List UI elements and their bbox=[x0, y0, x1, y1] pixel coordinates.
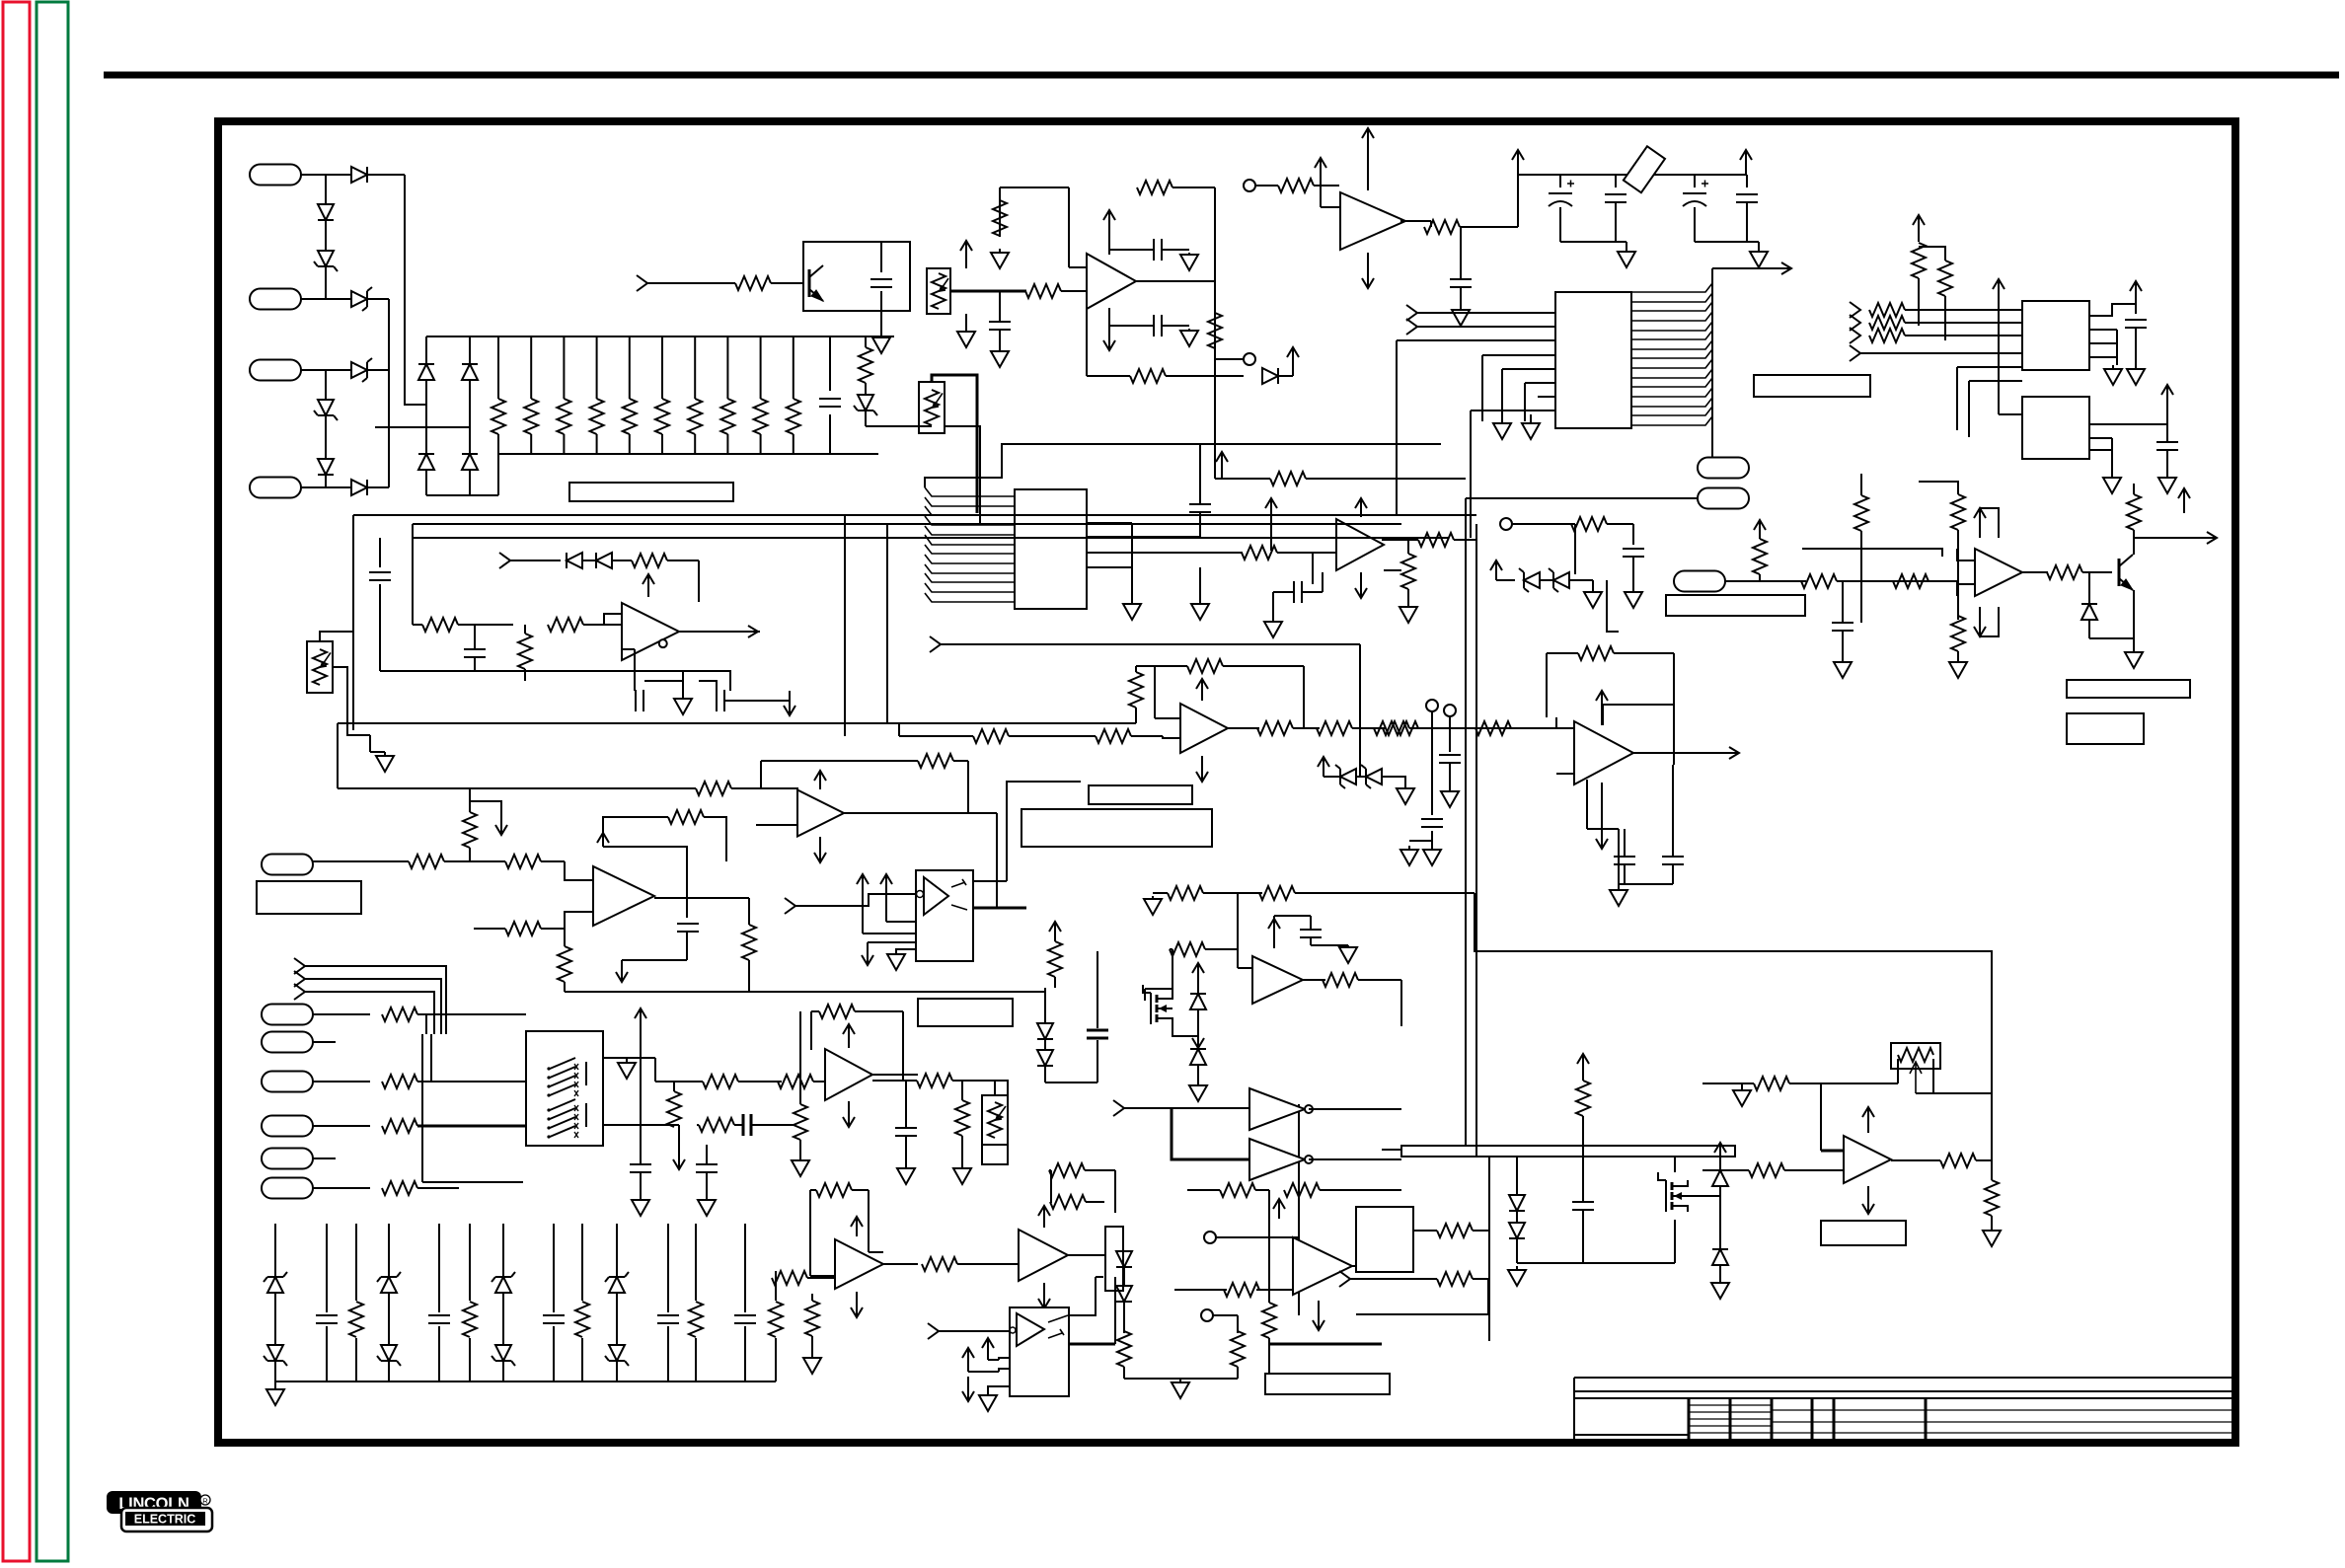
terminal node bbox=[1244, 353, 1255, 365]
power arrow bbox=[602, 833, 604, 847]
wire bbox=[744, 1224, 746, 1312]
wire bbox=[748, 898, 750, 925]
signal arrow bbox=[2134, 537, 2217, 539]
wire bbox=[999, 291, 1001, 322]
ground bbox=[965, 326, 967, 332]
wire bbox=[1574, 524, 1576, 574]
wire bbox=[425, 470, 427, 495]
wire bbox=[1382, 1149, 1401, 1151]
wire bbox=[313, 1081, 370, 1083]
ground bbox=[987, 1393, 989, 1395]
wire bbox=[748, 960, 750, 992]
wire bbox=[1007, 782, 1081, 881]
wire bbox=[694, 434, 696, 454]
ground bbox=[2166, 474, 2168, 478]
wire bbox=[1465, 498, 1467, 1146]
wire bbox=[563, 434, 565, 454]
wire bbox=[417, 1081, 526, 1083]
resistor R84 bbox=[794, 1104, 807, 1140]
power arrow bbox=[1323, 757, 1324, 777]
wire bbox=[849, 514, 1476, 516]
wire bbox=[661, 336, 663, 399]
wire bbox=[1045, 1082, 1097, 1083]
wire bbox=[565, 912, 593, 929]
power arrow bbox=[1201, 679, 1203, 701]
wire bbox=[872, 1080, 917, 1082]
wire bbox=[1061, 290, 1087, 292]
diode D11 bbox=[418, 454, 434, 470]
zener diode D4 bbox=[381, 1345, 397, 1361]
connector J3 bbox=[250, 360, 301, 381]
wire bbox=[2089, 342, 2117, 344]
resistor R50 bbox=[1571, 517, 1607, 531]
diode D19 bbox=[1116, 1251, 1132, 1267]
wire bbox=[726, 434, 728, 454]
wire bbox=[1050, 1170, 1052, 1202]
resistor R98 bbox=[1437, 1224, 1473, 1237]
wire bbox=[326, 369, 351, 371]
wire bbox=[1957, 530, 1959, 620]
wire bbox=[1417, 326, 1555, 328]
power arrow bbox=[2166, 385, 2168, 412]
ground bbox=[880, 332, 882, 337]
resistor R54 bbox=[1893, 574, 1929, 588]
op-amp U12 bbox=[1574, 721, 1633, 784]
page frame red stripe bbox=[3, 2, 30, 1561]
wire bbox=[880, 291, 882, 311]
wire bbox=[1352, 727, 1386, 729]
input chevron bbox=[1850, 302, 1860, 318]
wire bbox=[1310, 916, 1312, 930]
capacitor C2 bbox=[428, 1315, 450, 1323]
wire bbox=[1673, 705, 1675, 765]
resistor R94 bbox=[1262, 1303, 1276, 1338]
connector J2 bbox=[250, 289, 301, 310]
wire bbox=[1860, 474, 1862, 495]
power arrow bbox=[848, 1024, 850, 1048]
wire bbox=[1358, 979, 1401, 981]
ground bbox=[1431, 846, 1433, 850]
wire bbox=[414, 537, 837, 539]
wire bbox=[2166, 473, 2168, 475]
resistor R57 bbox=[1951, 494, 1965, 530]
wire bbox=[1956, 367, 1958, 430]
wire bbox=[902, 1011, 904, 1081]
wire bbox=[1746, 175, 1748, 187]
resistor R26 bbox=[1869, 316, 1905, 330]
resistor R100 bbox=[1898, 1048, 1933, 1062]
ground bbox=[1199, 600, 1201, 604]
diode D29 bbox=[1190, 1049, 1206, 1065]
wire bbox=[2135, 328, 2137, 365]
input chevron bbox=[1850, 345, 1860, 361]
wire bbox=[1322, 572, 1324, 592]
wire bbox=[1582, 1116, 1584, 1150]
wire bbox=[865, 336, 867, 347]
wire bbox=[1821, 1150, 1844, 1153]
wire bbox=[1587, 828, 1619, 830]
wire bbox=[1919, 247, 1945, 261]
wire bbox=[367, 298, 389, 300]
wire bbox=[1991, 1216, 1993, 1227]
wire bbox=[734, 1124, 742, 1126]
wire bbox=[1530, 414, 1532, 421]
wire bbox=[863, 933, 916, 934]
wire bbox=[1524, 383, 1526, 421]
wire bbox=[413, 523, 849, 525]
wire bbox=[866, 425, 932, 427]
power arrow bbox=[1745, 150, 1747, 175]
wire bbox=[1136, 665, 1187, 667]
wire bbox=[950, 290, 1026, 293]
wire bbox=[941, 643, 1115, 645]
wire bbox=[379, 584, 381, 671]
IC U19 bbox=[1010, 1307, 1069, 1396]
wire bbox=[541, 860, 565, 862]
wire bbox=[2116, 330, 2118, 365]
wire bbox=[953, 760, 968, 762]
wire bbox=[313, 1157, 336, 1159]
ground bbox=[999, 249, 1001, 253]
wire bbox=[673, 1082, 675, 1091]
resistor R86 bbox=[772, 1271, 807, 1285]
analog switch bbox=[547, 1067, 550, 1070]
capacitor C31 bbox=[677, 924, 699, 932]
wire bbox=[1603, 704, 1674, 706]
wire bbox=[274, 1361, 276, 1381]
input chevron bbox=[1406, 319, 1417, 335]
wire bbox=[898, 723, 900, 736]
resistor R10 bbox=[787, 399, 800, 434]
power arrow bbox=[819, 771, 821, 789]
resistor R71 bbox=[667, 1091, 681, 1127]
wire bbox=[616, 1361, 618, 1381]
capacitor C26 bbox=[696, 1164, 718, 1172]
wire bbox=[1968, 381, 1970, 437]
power arrow down bbox=[678, 1145, 680, 1169]
wire bbox=[682, 671, 684, 691]
wire bbox=[497, 434, 499, 454]
IC U22 bbox=[1356, 1207, 1413, 1272]
wire bbox=[1481, 355, 1483, 421]
wire bbox=[421, 1034, 423, 1182]
resistor R93 bbox=[1231, 1331, 1245, 1367]
op-amp U10 bbox=[1180, 704, 1228, 753]
wire bbox=[1431, 711, 1433, 728]
ground bbox=[706, 1196, 708, 1200]
wire bbox=[2111, 438, 2113, 474]
wire bbox=[565, 991, 1045, 993]
ground bbox=[1719, 1279, 1721, 1283]
power arrow bbox=[1495, 560, 1497, 580]
wire bbox=[2133, 530, 2135, 555]
wire bbox=[880, 311, 882, 332]
wire bbox=[1311, 944, 1348, 946]
power arrow bbox=[1759, 520, 1761, 539]
wire bbox=[1352, 1265, 1401, 1267]
wire bbox=[305, 979, 441, 1034]
capacitor C8 bbox=[1605, 194, 1626, 202]
wire bbox=[622, 648, 635, 650]
resistor R48 bbox=[973, 729, 1009, 743]
wire bbox=[1135, 666, 1137, 672]
wire bbox=[1237, 893, 1239, 968]
wire bbox=[1905, 309, 2022, 311]
wire bbox=[886, 524, 888, 723]
wire bbox=[667, 1326, 669, 1381]
wire bbox=[679, 631, 760, 633]
wire bbox=[905, 1081, 907, 1128]
power arrow bbox=[1270, 498, 1272, 551]
wire bbox=[811, 1294, 813, 1301]
wire bbox=[622, 959, 687, 961]
wire bbox=[612, 560, 632, 561]
wire bbox=[629, 336, 631, 399]
wire bbox=[1460, 287, 1462, 306]
diode D15 bbox=[567, 553, 582, 568]
zener diode D7 bbox=[351, 362, 367, 378]
power arrow bbox=[862, 874, 864, 933]
resistor R22 bbox=[1424, 220, 1460, 234]
ground bbox=[1197, 1082, 1199, 1085]
IC U5 bbox=[2022, 301, 2089, 370]
wire bbox=[1475, 893, 1992, 1093]
wire bbox=[1719, 1186, 1721, 1196]
wire bbox=[1602, 705, 1604, 725]
wire bbox=[2089, 437, 2112, 439]
wire bbox=[865, 411, 867, 426]
wire bbox=[1842, 581, 1844, 623]
wire bbox=[1114, 1170, 1116, 1213]
wire bbox=[965, 260, 967, 268]
capacitor C1 bbox=[819, 399, 841, 407]
power arrow down bbox=[1601, 783, 1603, 849]
schematic border bbox=[218, 121, 2235, 1443]
resistor R61 bbox=[1374, 721, 1409, 735]
wire bbox=[1418, 727, 1520, 729]
wire bbox=[616, 1224, 618, 1277]
wire bbox=[994, 1081, 996, 1095]
diode D27 bbox=[1037, 1050, 1053, 1066]
wire bbox=[868, 941, 916, 943]
wire bbox=[1131, 582, 1133, 600]
resistor R30 bbox=[518, 634, 532, 669]
wire bbox=[1860, 352, 2022, 354]
wire bbox=[1214, 187, 1216, 281]
wire bbox=[634, 649, 636, 691]
wire bbox=[1957, 651, 1959, 659]
ground bbox=[2111, 474, 2113, 478]
label box LB9 bbox=[2067, 713, 2144, 744]
wire bbox=[2166, 450, 2168, 474]
capacitor C27 bbox=[895, 1128, 917, 1136]
wire bbox=[426, 494, 498, 496]
resistor R29 bbox=[422, 618, 458, 632]
resistor R19 bbox=[1208, 313, 1222, 348]
ground bbox=[895, 951, 897, 954]
wire bbox=[905, 1136, 907, 1164]
zener diode D2 bbox=[318, 251, 334, 266]
resistor R55 bbox=[1753, 539, 1767, 574]
capacitor C5 bbox=[734, 1315, 756, 1323]
ground bbox=[811, 1354, 813, 1358]
capacitor C3 bbox=[543, 1315, 565, 1323]
op-amp U28 bbox=[797, 790, 844, 837]
wire bbox=[2133, 484, 2135, 494]
wire bbox=[337, 723, 339, 788]
wire bbox=[756, 824, 797, 826]
wire bbox=[355, 1338, 357, 1381]
power arrow down bbox=[819, 837, 821, 862]
wire bbox=[1559, 175, 1561, 187]
wire bbox=[1430, 221, 1432, 227]
wire bbox=[1615, 203, 1617, 242]
wire bbox=[530, 434, 532, 454]
resistor R2 bbox=[524, 399, 538, 434]
wire bbox=[1929, 581, 1975, 584]
wire bbox=[1569, 579, 1593, 581]
wire bbox=[731, 787, 761, 789]
wire bbox=[1516, 1238, 1518, 1263]
wire bbox=[982, 1081, 1008, 1095]
wire bbox=[326, 174, 351, 176]
resistor R75 bbox=[349, 1302, 363, 1337]
op-amp U16 bbox=[1019, 1230, 1068, 1281]
analog switch bbox=[547, 1093, 550, 1096]
wire fan right of U4 bbox=[1631, 283, 1712, 425]
wire bbox=[793, 336, 794, 399]
resistor R38 bbox=[742, 925, 756, 960]
wire bbox=[2082, 571, 2112, 573]
wire bbox=[1303, 666, 1305, 728]
wire bbox=[811, 1010, 819, 1012]
wire bbox=[1905, 322, 2022, 324]
wire bbox=[564, 982, 566, 992]
capacitor C23 bbox=[1662, 857, 1684, 864]
label box LB10 bbox=[918, 999, 1013, 1026]
wire bbox=[1460, 227, 1462, 279]
wire bbox=[1592, 580, 1594, 590]
resistor R104 bbox=[1985, 1180, 1999, 1216]
zener diode D2 bbox=[267, 1345, 283, 1361]
wire bbox=[1626, 242, 1627, 250]
resistor R24 bbox=[1938, 261, 1952, 296]
wire bbox=[1674, 1220, 1676, 1263]
wire bbox=[1087, 375, 1130, 377]
wire bbox=[370, 751, 385, 753]
wire bbox=[686, 898, 688, 918]
connector J13 bbox=[262, 855, 313, 875]
resistor R62 bbox=[1048, 941, 1062, 977]
wire bbox=[1674, 1157, 1676, 1172]
resistor R60 bbox=[1475, 721, 1511, 735]
wire bbox=[603, 1057, 641, 1059]
wire bbox=[704, 817, 726, 861]
wire bbox=[1162, 249, 1189, 251]
wire bbox=[886, 921, 916, 923]
wire bbox=[698, 560, 700, 602]
wire bbox=[1624, 864, 1626, 884]
wire bbox=[1837, 580, 1895, 582]
power arrow down bbox=[1043, 1283, 1045, 1308]
wire bbox=[1482, 354, 1555, 356]
wire bbox=[313, 1041, 336, 1043]
op-amp U25 bbox=[1252, 956, 1303, 1004]
wire bbox=[849, 523, 1401, 525]
wire bbox=[1172, 1108, 1249, 1159]
label box LB7 bbox=[1821, 1221, 1906, 1245]
input chevron bbox=[1850, 328, 1860, 343]
wire bbox=[1310, 937, 1312, 945]
op-amp U14 bbox=[825, 1049, 872, 1100]
wire bbox=[1312, 553, 1314, 584]
resistor R68 bbox=[382, 1075, 417, 1088]
wire bbox=[793, 434, 794, 454]
resistor R79 bbox=[769, 1302, 783, 1337]
ground bbox=[1626, 250, 1627, 252]
wire bbox=[1199, 567, 1201, 600]
wire bbox=[761, 788, 797, 801]
wire bbox=[616, 1293, 618, 1345]
wire bbox=[458, 624, 513, 626]
resistor R20 bbox=[1270, 472, 1306, 485]
wire bbox=[1163, 736, 1180, 738]
wire bbox=[301, 486, 326, 488]
resistor R27 bbox=[1869, 329, 1905, 342]
wire bbox=[1413, 1230, 1437, 1232]
wire bbox=[1417, 312, 1555, 314]
wire bbox=[1969, 380, 2022, 382]
wire bbox=[1473, 1230, 1489, 1232]
wire bbox=[1255, 1189, 1269, 1191]
wire bbox=[1087, 522, 1132, 524]
capacitor C1 bbox=[316, 1315, 338, 1323]
wire bbox=[1238, 967, 1252, 969]
power arrow down bbox=[867, 942, 869, 965]
resistor R88 bbox=[805, 1301, 819, 1336]
capacitor C28 bbox=[1572, 1202, 1594, 1210]
wire bbox=[305, 966, 446, 1034]
wire bbox=[325, 370, 327, 400]
wire bbox=[565, 861, 593, 880]
resistor R102 bbox=[1749, 1163, 1784, 1177]
resistor R56 bbox=[1854, 495, 1868, 531]
resistor R6 bbox=[655, 399, 669, 434]
wire bbox=[973, 880, 1007, 882]
wire bbox=[896, 949, 916, 951]
wire bbox=[582, 560, 596, 561]
wire bbox=[1556, 727, 1574, 729]
signal arrow bbox=[730, 631, 758, 633]
wire bbox=[326, 1326, 328, 1381]
MOSFET Q2 bbox=[1665, 1180, 1667, 1212]
wire bbox=[1225, 552, 1242, 554]
capacitor C16 bbox=[717, 690, 724, 711]
wire bbox=[961, 1136, 963, 1164]
resistor R47 bbox=[1096, 729, 1131, 743]
wire bbox=[1097, 1040, 1098, 1083]
wire bbox=[301, 369, 326, 371]
analog switch bbox=[547, 1084, 550, 1087]
wire bbox=[650, 816, 668, 818]
wire bbox=[1273, 916, 1275, 919]
wire bbox=[524, 669, 526, 681]
wire bbox=[333, 667, 370, 735]
connector J4 bbox=[250, 478, 301, 498]
input chevron bbox=[1113, 1100, 1124, 1116]
IC U13 bbox=[526, 1031, 603, 1146]
resistor R21 bbox=[1278, 179, 1314, 192]
